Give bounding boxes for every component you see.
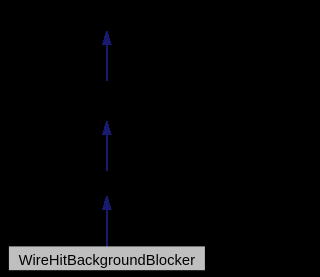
- inheritance arrow 2 (middle): shaft wire: [106, 134, 108, 171]
- inheritance arrow 1 (top): arrowhead: [102, 31, 112, 45]
- class box WireHitBackgroundBlocker: [9, 246, 205, 270]
- inheritance arrow 2 (middle): arrowhead: [102, 121, 112, 135]
- class name label: [19, 253, 196, 269]
- inheritance arrow 3 (bottom): shaft wire: [106, 209, 108, 247]
- inheritance arrow 3 (bottom): arrowhead: [102, 196, 112, 210]
- svg-text:WireHitBackgroundBlocker: WireHitBackgroundBlocker: [19, 253, 196, 269]
- inheritance arrow 1 (top): shaft wire: [106, 44, 108, 81]
